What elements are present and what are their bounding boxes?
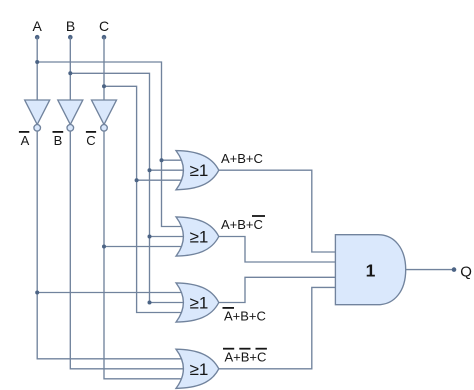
svg-text:C: C [99, 18, 109, 34]
svg-text:≥1: ≥1 [190, 228, 209, 247]
terminal dot input B [68, 35, 73, 40]
label notA+notB+notC [223, 348, 267, 365]
or-gate G1 [176, 151, 219, 190]
wire NOT-A output to OR gates G3,G4 [37, 131, 184, 359]
wire A input to inverter U1 [36, 37, 38, 100]
or-gate G4 [176, 349, 219, 388]
terminal dot output Q [452, 267, 457, 272]
wire B branch to OR gates G1,G2,G3 [70, 73, 184, 302]
node A input label [33, 18, 43, 34]
junction NOT-C at G2 input [102, 245, 106, 249]
svg-text:B: B [66, 18, 75, 34]
svg-text:A+B+C: A+B+C [224, 309, 266, 324]
terminal dot input A [35, 35, 40, 40]
svg-text:≥1: ≥1 [190, 294, 209, 313]
label A+B+notC [221, 215, 265, 232]
label notA+B+C [223, 307, 266, 324]
inverter U3 [92, 100, 117, 131]
svg-text:A+B+C: A+B+C [221, 217, 263, 232]
wire G3 output to AND gate input 3 [218, 277, 336, 302]
junction C at G1 input [135, 178, 139, 182]
svg-text:1: 1 [366, 261, 376, 281]
svg-text:C: C [86, 133, 95, 148]
terminal dot input C [102, 35, 107, 40]
node C input label [99, 18, 109, 34]
junction A at G1 input [160, 158, 164, 162]
wire G2 output to AND gate input 2 [218, 237, 336, 263]
label NOT C [86, 131, 96, 148]
junction B at G1 input [148, 168, 152, 172]
junction A branch [35, 60, 39, 64]
junction B branch [68, 71, 72, 75]
wire NOT-C output to OR gates G2,G4 [104, 131, 184, 379]
svg-text:Q: Q [460, 264, 472, 281]
node B input label [66, 18, 75, 34]
wire G4 output to AND gate input 4 [218, 287, 336, 368]
wire AND output to Q [406, 269, 454, 271]
wire NOT-B output to OR gate G4 [70, 131, 184, 369]
and-gate U4 [335, 235, 405, 305]
inverter U2 [58, 100, 83, 131]
svg-text:≥1: ≥1 [190, 360, 209, 379]
svg-text:A+B+C: A+B+C [221, 151, 263, 166]
wire C branch to OR gates G1,G3 [104, 86, 184, 312]
wire A branch to OR gates G1,G2 [37, 62, 184, 227]
junction C branch [102, 84, 106, 88]
label NOT B [53, 131, 64, 148]
label NOT A [19, 131, 30, 148]
junction B at G2 input [148, 235, 152, 239]
or-gate G3 [176, 283, 219, 322]
svg-text:A: A [21, 133, 30, 148]
junction B at G3 input [148, 301, 152, 305]
wire G1 output to AND gate input 1 [218, 170, 336, 252]
or-gate G2 [176, 217, 219, 256]
junction NOT-A at G3 input [35, 291, 39, 295]
inverter U1 [25, 100, 50, 131]
wire B input to inverter U2 [69, 37, 71, 100]
node Q output label [460, 264, 472, 281]
svg-text:A: A [33, 18, 43, 34]
svg-text:≥1: ≥1 [190, 161, 209, 180]
label A+B+C [221, 151, 263, 166]
svg-text:B: B [54, 133, 63, 148]
wire C input to inverter U3 [103, 37, 105, 100]
svg-text:A+B+C: A+B+C [225, 350, 267, 365]
